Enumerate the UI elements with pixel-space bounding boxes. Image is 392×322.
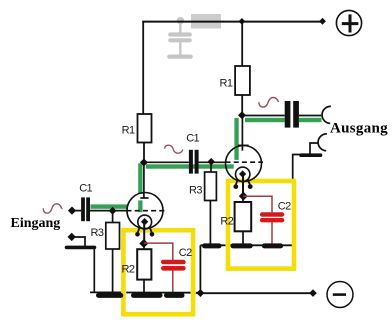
ghost resistor (grayed) on supply rail <box>191 14 221 29</box>
input sine squiggle <box>43 204 61 213</box>
node: V1 anode junction <box>140 158 148 166</box>
tube V1 heater leg left <box>135 227 140 236</box>
tube V1 grid (dashed) <box>127 210 165 212</box>
label C2 (stage 1) <box>179 247 192 259</box>
node: grid junction of V2 <box>207 158 215 166</box>
green signal-path highlight: V1 anode vertical <box>138 163 142 212</box>
tube V2 heater leg right <box>248 180 253 189</box>
svg-text:C2: C2 <box>278 201 291 213</box>
label R1 (stage 1) <box>122 125 135 137</box>
tube V1 cathode dot <box>141 218 148 225</box>
label R2 (stage 2) <box>220 216 233 228</box>
ground rail stage 1 <box>90 292 200 295</box>
green signal-path highlight: V2 anode vertical <box>234 118 238 160</box>
wire: red link V1 cathode to C2 <box>144 243 173 260</box>
node: V+ rail right end terminal <box>319 18 326 25</box>
middle sine squiggle <box>165 145 183 153</box>
output sine squiggle <box>259 97 279 107</box>
tube V2 cathode dot <box>239 170 246 177</box>
label R3 (stage 1) <box>91 227 104 239</box>
green signal-path highlight: V2 anode to output cap <box>245 118 285 122</box>
svg-text:R3: R3 <box>189 185 202 197</box>
svg-text:R2: R2 <box>220 216 233 228</box>
output jack (ground) <box>318 134 327 151</box>
node: ground rail right terminal <box>309 289 317 297</box>
resistor R1 stage 2 <box>235 22 250 116</box>
wire: V2 cathode down to bias network <box>242 175 244 196</box>
node: input terminal (ground side) <box>67 233 75 241</box>
svg-text:C2: C2 <box>179 247 192 259</box>
output jack (hot) <box>322 106 331 123</box>
battery plus symbol <box>336 10 361 35</box>
capacitor C2 stage 1 (red) <box>163 262 183 268</box>
highlight box around R2/C2 stage 1 <box>123 230 193 314</box>
wire: V+ supply rail (top) <box>142 21 322 23</box>
node: V+ rail / R1 (stage2) junction <box>239 18 246 25</box>
node: V2 anode junction <box>238 111 246 119</box>
wire: V2 anode to output capacitor <box>242 115 285 117</box>
tube V1 heater leg right <box>150 227 155 236</box>
tube V1 anode plate bar <box>140 197 148 199</box>
resistor R1 stage 1 <box>138 114 152 163</box>
wire: V1 anode to C1 (stage 2) <box>144 161 189 163</box>
svg-text:R3: R3 <box>91 227 104 239</box>
resistor R3 stage 1 <box>106 211 120 293</box>
wire: input ground lead <box>72 237 85 246</box>
wire: input ground down to ground rail <box>93 249 95 293</box>
ground bar at output <box>301 153 321 157</box>
ghost capacitor (grayed) <box>170 21 189 55</box>
label R2 (stage 1) <box>122 264 135 276</box>
label Ausgang <box>330 121 388 137</box>
label C1 (stage 1) <box>79 183 92 195</box>
highlight box around R2/C2 stage 2 <box>228 181 294 269</box>
wire: V1 anode lead <box>143 162 145 198</box>
wire: V2 anode lead <box>241 115 243 150</box>
capacitor C1 stage 1 input coupling <box>75 197 127 221</box>
wire: V1 cathode down to bias network <box>143 223 145 244</box>
node: main ground rail junction <box>196 289 204 297</box>
tube V1 cathode circle <box>138 215 152 229</box>
wire: main ground rail to battery minus <box>200 292 313 294</box>
svg-text:R1: R1 <box>220 77 233 89</box>
ghost junction dot (grayed) <box>177 17 184 24</box>
tube V2 heater leg left <box>233 180 238 189</box>
wire: red link V2 cathode to C2 <box>243 196 272 212</box>
svg-text:C1: C1 <box>186 133 199 145</box>
node: grid junction of V1 <box>109 207 117 215</box>
wire: red C2 to ground rail <box>172 270 174 292</box>
battery minus symbol <box>327 282 353 308</box>
svg-text:Ausgang: Ausgang <box>330 121 388 137</box>
output coupling capacitor <box>285 101 322 128</box>
resistor R2 stage 1 <box>137 243 151 292</box>
capacitor C2 stage 2 (red) <box>262 215 282 221</box>
resistor R2 stage 2 <box>235 196 252 245</box>
label C2 (stage 2) <box>278 201 291 213</box>
wire: output jack ground lead <box>310 143 318 154</box>
svg-text:Eingang: Eingang <box>11 216 61 231</box>
tube V2 cathode circle <box>236 167 250 181</box>
wire: red C2 to stage-2 ground rail <box>271 222 273 245</box>
wire: left drop from V+ rail to R1 <box>142 22 144 115</box>
ground bar at input <box>67 246 95 250</box>
label R3 (stage 2) <box>189 185 202 197</box>
tube V2 grid (dashed) <box>226 161 264 163</box>
resistor R3 stage 2 <box>205 162 217 245</box>
label C1 (stage 2) <box>186 133 199 145</box>
wire: output ground to stage-2 rail <box>293 155 300 179</box>
green signal-path highlight: V1 anode to V2 grid <box>146 164 234 168</box>
wire: stage-2 rail down to main ground <box>199 245 201 293</box>
green signal-path highlight: output cap to Ausgang jack <box>299 118 322 122</box>
capacitor C1 stage 2 coupling <box>189 150 226 174</box>
svg-text:C1: C1 <box>79 183 92 195</box>
ground rail stage 2 <box>200 244 291 247</box>
ghost ground bar (grayed) <box>169 54 190 58</box>
tube V2 envelope <box>226 146 262 182</box>
node: V2 cathode bias junction <box>239 192 248 201</box>
node: V1 cathode bias junction <box>139 239 148 248</box>
node: input terminal (hot) <box>68 206 76 214</box>
tube V1 envelope <box>127 193 163 229</box>
svg-text:R2: R2 <box>122 264 135 276</box>
green signal-path highlight: C1 to tube V1 grid <box>91 204 128 208</box>
svg-text:R1: R1 <box>122 125 135 137</box>
label Eingang <box>11 216 61 231</box>
label R1 (stage 2) <box>220 77 233 89</box>
tube V2 anode plate bar <box>238 144 249 146</box>
